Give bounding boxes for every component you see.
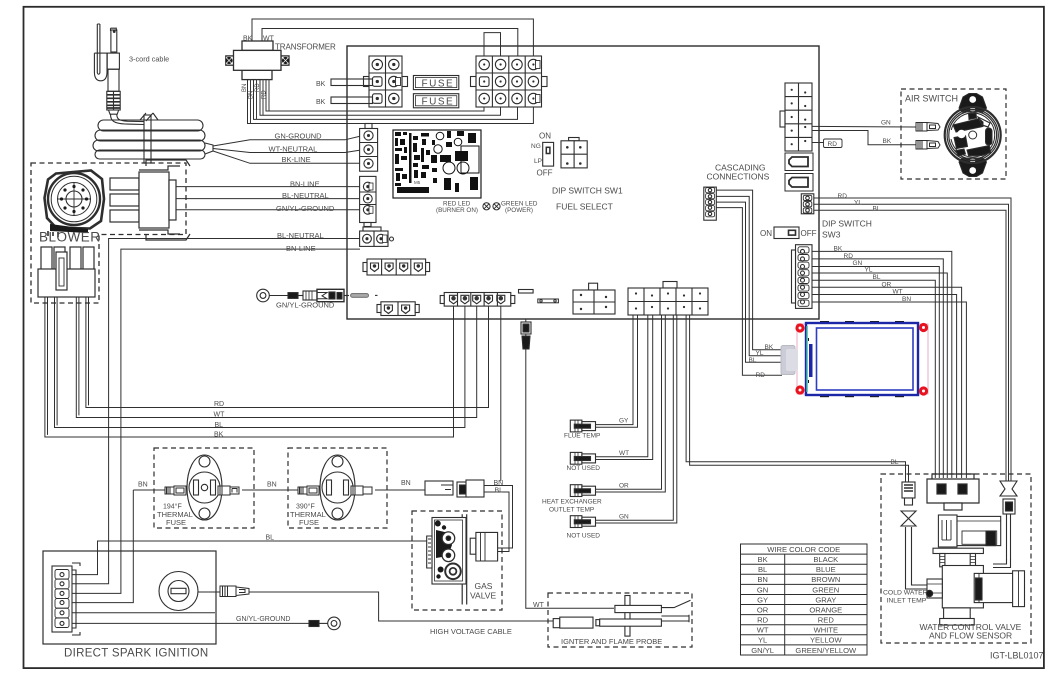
svg-text:GY: GY bbox=[757, 595, 768, 604]
svg-text:GN/YL-GROUND: GN/YL-GROUND bbox=[276, 204, 335, 213]
svg-text:IGT-LBL0107: IGT-LBL0107 bbox=[990, 651, 1044, 661]
svg-text:NOT USED: NOT USED bbox=[567, 533, 601, 540]
svg-text:AIR SWITCH: AIR SWITCH bbox=[905, 94, 958, 104]
svg-text:BL-NEUTRAL: BL-NEUTRAL bbox=[282, 191, 329, 200]
svg-text:BROWN: BROWN bbox=[811, 575, 840, 584]
svg-text:BN-LINE: BN-LINE bbox=[290, 180, 320, 189]
svg-text:AND FLOW SENSOR: AND FLOW SENSOR bbox=[929, 631, 1012, 641]
svg-text:OR: OR bbox=[882, 282, 892, 289]
svg-text:GN/YL: GN/YL bbox=[751, 646, 774, 655]
svg-text:WT: WT bbox=[263, 36, 275, 43]
svg-text:OR: OR bbox=[619, 483, 629, 490]
svg-text:BL: BL bbox=[266, 535, 275, 542]
svg-text:SW3: SW3 bbox=[822, 230, 841, 240]
svg-text:WT: WT bbox=[533, 602, 545, 609]
svg-text:GAS: GAS bbox=[475, 581, 493, 591]
svg-text:BN: BN bbox=[267, 482, 277, 489]
svg-text:DIRECT SPARK IGNITION: DIRECT SPARK IGNITION bbox=[64, 648, 209, 660]
svg-text:YL: YL bbox=[756, 350, 764, 357]
svg-text:BL: BL bbox=[873, 205, 881, 212]
svg-text:NOT USED: NOT USED bbox=[567, 465, 601, 472]
svg-text:RD: RD bbox=[262, 90, 268, 99]
svg-text:IGNTER AND FLAME PROBE: IGNTER AND FLAME PROBE bbox=[561, 637, 662, 646]
svg-text:WT: WT bbox=[619, 450, 629, 457]
svg-text:ORANGE: ORANGE bbox=[809, 605, 842, 614]
svg-text:BL: BL bbox=[758, 565, 767, 574]
svg-text:BN: BN bbox=[401, 480, 411, 487]
svg-text:INLET TEMP: INLET TEMP bbox=[887, 598, 927, 605]
svg-text:BL: BL bbox=[495, 488, 504, 495]
svg-text:HEAT EXCHANGER: HEAT EXCHANGER bbox=[542, 499, 602, 506]
svg-text:BN-LINE: BN-LINE bbox=[286, 244, 316, 253]
svg-text:BL: BL bbox=[749, 357, 757, 364]
svg-text:WT: WT bbox=[214, 412, 226, 419]
svg-text:VALVE: VALVE bbox=[470, 591, 496, 601]
svg-text:BN: BN bbox=[249, 91, 255, 99]
svg-text:GN: GN bbox=[881, 120, 891, 127]
svg-text:BN: BN bbox=[242, 84, 248, 92]
svg-text:RD: RD bbox=[757, 616, 768, 625]
svg-text:BL: BL bbox=[215, 422, 224, 429]
svg-text:GY: GY bbox=[619, 418, 629, 425]
svg-text:DIP SWITCH: DIP SWITCH bbox=[822, 219, 872, 229]
svg-text:YELLOW: YELLOW bbox=[810, 636, 842, 645]
svg-text:BLUE: BLUE bbox=[816, 565, 836, 574]
svg-text:BL: BL bbox=[873, 274, 881, 281]
svg-text:GN/YL-GROUND: GN/YL-GROUND bbox=[236, 616, 290, 623]
svg-text:WT-NEUTRAL: WT-NEUTRAL bbox=[269, 145, 318, 154]
svg-text:GN: GN bbox=[757, 585, 768, 594]
svg-text:ON: ON bbox=[539, 132, 551, 141]
svg-text:RD: RD bbox=[828, 141, 838, 148]
svg-text:BN: BN bbox=[757, 575, 768, 584]
svg-text:BK: BK bbox=[214, 432, 224, 439]
svg-text:YL: YL bbox=[758, 636, 767, 645]
svg-text:BLOWER: BLOWER bbox=[39, 230, 101, 245]
svg-text:WHITE: WHITE bbox=[814, 626, 838, 635]
svg-text:OFF: OFF bbox=[537, 169, 553, 178]
svg-text:NG: NG bbox=[531, 143, 541, 150]
svg-text:BK-LINE: BK-LINE bbox=[282, 155, 311, 164]
svg-text:BK: BK bbox=[758, 555, 768, 564]
svg-text:OFF: OFF bbox=[801, 229, 817, 238]
svg-text:BK: BK bbox=[243, 36, 253, 43]
svg-text:BLACK: BLACK bbox=[813, 555, 838, 564]
svg-text:BL-NEUTRAL: BL-NEUTRAL bbox=[277, 231, 324, 240]
svg-text:3-cord cable: 3-cord cable bbox=[129, 55, 169, 64]
svg-text:GN/YL-GROUND: GN/YL-GROUND bbox=[276, 301, 335, 310]
svg-text:GN: GN bbox=[619, 514, 629, 521]
svg-text:WT: WT bbox=[893, 289, 903, 296]
svg-text:(POWER): (POWER) bbox=[505, 207, 533, 214]
svg-text:HIGH VOLTAGE CABLE: HIGH VOLTAGE CABLE bbox=[430, 627, 512, 636]
svg-text:M5: M5 bbox=[414, 180, 421, 185]
svg-text:RD: RD bbox=[838, 193, 848, 200]
svg-text:BN: BN bbox=[494, 480, 504, 487]
svg-text:DIP SWITCH SW1: DIP SWITCH SW1 bbox=[552, 186, 623, 196]
svg-text:RD: RD bbox=[255, 83, 261, 92]
svg-text:BL: BL bbox=[891, 459, 899, 466]
svg-text:GRAY: GRAY bbox=[815, 595, 836, 604]
svg-text:CONNECTIONS: CONNECTIONS bbox=[707, 172, 770, 182]
svg-text:BK: BK bbox=[316, 99, 326, 106]
svg-text:FUEL SELECT: FUEL SELECT bbox=[556, 202, 613, 212]
svg-text:WIRE COLOR CODE: WIRE COLOR CODE bbox=[767, 545, 840, 554]
svg-text:FUSE: FUSE bbox=[299, 518, 319, 527]
svg-text:BK: BK bbox=[316, 81, 326, 88]
svg-text:YL: YL bbox=[865, 267, 873, 274]
svg-text:RD: RD bbox=[844, 253, 854, 260]
svg-text:FLUE TEMP: FLUE TEMP bbox=[564, 433, 600, 440]
svg-text:WT: WT bbox=[757, 626, 769, 635]
svg-text:BN: BN bbox=[902, 296, 911, 303]
svg-text:FUSE: FUSE bbox=[422, 78, 455, 89]
svg-text:BK: BK bbox=[883, 138, 892, 145]
svg-text:BN: BN bbox=[138, 482, 148, 489]
svg-text:OUTLET TEMP: OUTLET TEMP bbox=[549, 507, 594, 514]
svg-text:GREEN/YELLOW: GREEN/YELLOW bbox=[795, 646, 857, 655]
svg-text:GN: GN bbox=[853, 260, 863, 267]
svg-text:BK: BK bbox=[765, 344, 774, 351]
svg-text:RED: RED bbox=[818, 616, 835, 625]
svg-text:FUSE: FUSE bbox=[422, 97, 455, 108]
svg-text:GREEN: GREEN bbox=[812, 585, 839, 594]
svg-text:BK: BK bbox=[834, 246, 843, 253]
svg-text:GN-GROUND: GN-GROUND bbox=[275, 132, 323, 141]
svg-text:FUSE: FUSE bbox=[166, 518, 186, 527]
svg-text:OR: OR bbox=[757, 605, 769, 614]
svg-text:(BURNER ON): (BURNER ON) bbox=[436, 207, 478, 214]
svg-text:RD: RD bbox=[214, 401, 224, 408]
svg-text:ON: ON bbox=[760, 229, 772, 238]
svg-text:COLD WATER: COLD WATER bbox=[883, 590, 928, 597]
svg-text:RD: RD bbox=[756, 372, 766, 379]
svg-text:YL: YL bbox=[854, 199, 862, 206]
svg-text:LP: LP bbox=[534, 158, 542, 165]
svg-text:TRANSFORMER: TRANSFORMER bbox=[275, 43, 336, 52]
